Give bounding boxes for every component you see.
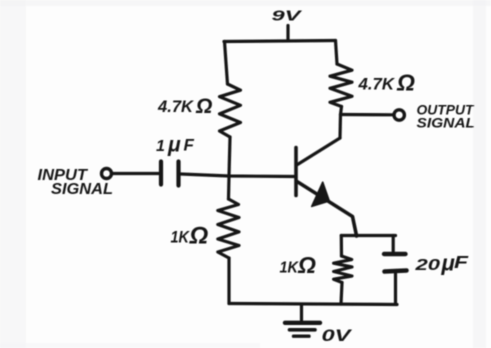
wire: bottom 0V rail [229,304,397,305]
wire: top 9V rail [224,41,336,42]
ground bar 1 [285,321,320,325]
wire: input terminal to C1 [113,172,160,175]
wire: R2 bottom to 0V rail [227,258,230,304]
wire: RC parallel top bar [341,234,395,237]
svg-text:1K: 1K [280,260,300,277]
input terminal [102,169,112,179]
capacitor C2 plate bottom [385,271,407,272]
wire: R1 bottom to base node [229,137,230,176]
resistor R2 1K (base to ground) [218,199,239,258]
paper shading left edge [0,0,26,348]
capacitor C1 plate left [159,162,163,185]
label C2 value 20uF [414,251,470,276]
label R1 value [157,95,212,118]
label R2 value [171,223,209,250]
wire: node A down to R2 [227,176,231,199]
ground stub [300,305,303,320]
svg-text:SIGNAL: SIGNAL [51,181,113,198]
svg-text:Ω: Ω [297,252,316,278]
svg-text:0V: 0V [322,326,353,345]
ground bar 3 [294,335,310,338]
label R3 value [358,70,415,96]
label R4 value [280,252,317,278]
capacitor C1 plate right [176,162,180,186]
wire: top bar down to R4 [340,236,343,257]
wire: coupling cap to base (through node A) [181,174,296,177]
svg-text:1: 1 [156,138,165,155]
svg-text:4.7K: 4.7K [157,97,195,116]
resistor R1 4.7K (base pull-up) [220,84,241,137]
transistor Q1 collector lead [298,138,341,165]
0V label [322,326,353,345]
ground bar 2 [290,328,316,332]
label C1 value 1uF [156,134,195,157]
capacitor C2 plate top [384,252,406,256]
resistor R4 1K (emitter) [334,256,352,283]
svg-text:SIGNAL: SIGNAL [417,115,476,131]
wire: output node down to collector [338,115,342,139]
svg-text:μ: μ [441,251,455,276]
output terminal [394,110,404,120]
svg-text:F: F [454,252,470,272]
svg-text:Ω: Ω [195,95,212,118]
svg-text:μ: μ [167,134,181,157]
svg-text:F: F [184,136,195,155]
wire: R3 bottom to output node [341,107,342,115]
output label [417,102,476,131]
wire: right branch from rail down to R3 [336,41,338,65]
wire: C2 bottom to 0V rail [394,274,397,304]
svg-text:Ω: Ω [396,70,415,96]
svg-text:20: 20 [414,257,440,274]
resistor R3 4.7K (collector load) [330,64,352,107]
svg-text:9V: 9V [272,8,304,25]
svg-text:1K: 1K [171,228,191,247]
9V tick wire [286,26,289,41]
svg-text:Ω: Ω [189,223,209,250]
wire: top bar down to C2 [392,236,395,253]
wire: output node to output terminal [341,113,393,117]
transistor Q1 emitter lead [297,182,357,237]
9V supply label [272,8,304,25]
wire: R4 bottom to 0V rail [341,283,342,305]
transistor Q1 emitter arrow [312,182,330,206]
input label [38,167,114,198]
wire: left branch from rail down to R1 [225,42,228,85]
svg-text:4.7K: 4.7K [358,75,396,94]
transistor Q1 base bar [294,148,298,196]
